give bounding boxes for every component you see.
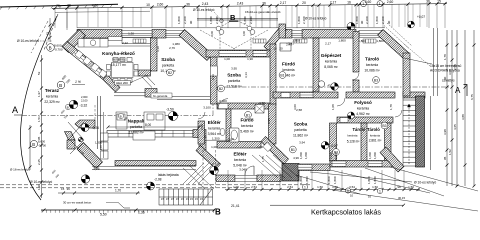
svg-text:kerámia: kerámia [348,134,358,138]
svg-text:parketta: parketta [294,128,306,132]
interior small dims [122,32,384,172]
bottom-left dim rows [58,192,140,195]
svg-text:Ø 16-es lefolyó: Ø 16-es lefolyó [10,168,31,172]
svg-text:2,861 m²: 2,861 m² [369,139,382,143]
svg-text:2,54: 2,54 [287,185,293,189]
svg-text:3,94: 3,94 [299,141,305,145]
bottom facade right section [299,164,330,171]
circled B markers left [47,44,55,52]
svg-text:B: B [32,142,35,147]
svg-text:0,90: 0,90 [242,30,246,36]
svg-text:2,58: 2,58 [259,101,265,105]
svg-text:kerámia: kerámia [370,134,380,138]
svg-text:1,800: 1,800 [299,176,303,184]
svg-text:B: B [49,45,52,50]
stairs bottom-left [159,189,213,205]
svg-text:3,13: 3,13 [211,74,215,80]
svg-text:1,800: 1,800 [299,152,303,159]
staircase right [403,98,416,166]
svg-text:B1: B1 [280,74,284,78]
svg-text:1,70: 1,70 [115,189,121,193]
top facade wall segments [77,30,122,39]
svg-text:kerámia: kerámia [46,94,58,98]
svg-text:Tároló: Tároló [367,127,380,132]
level quadrant markers [69,100,78,109]
cross braces [68,122,84,154]
svg-text:-0,07: -0,07 [331,144,338,148]
svg-text:10: 10 [350,194,354,198]
svg-text:B: B [215,208,221,217]
ACO drain channel right [431,28,438,170]
svg-text:1,50: 1,50 [317,185,323,189]
svg-text:-2,08: -2,08 [154,178,162,182]
bottom-left chamfer wall [77,143,103,169]
svg-text:2,17: 2,17 [330,1,337,5]
interior wall v3 szoba2/furdo1 [270,44,276,105]
rotated pairs above bottom windows [299,152,377,159]
svg-text:+0,07: +0,07 [417,15,425,19]
svg-text:ACO DRAIN folyóka: ACO DRAIN folyóka [430,69,460,73]
svg-text:12,518 m²: 12,518 m² [226,84,242,88]
top-left corner chamfer wall [62,30,86,53]
dining table + chairs [107,58,139,83]
door arcs [198,73,402,175]
svg-text:3,88: 3,88 [461,114,465,120]
svg-text:1,08: 1,08 [331,104,335,110]
svg-text:15: 15 [437,0,441,3]
svg-text:HEA 200: HEA 200 [116,81,128,85]
svg-text:2,60: 2,60 [387,0,394,4]
svg-text:1,00: 1,00 [233,185,239,189]
svg-text:fm-gerenda: fm-gerenda [153,94,168,98]
svg-text:1,800: 1,800 [358,39,366,43]
atrium rosette markers [216,26,255,34]
svg-text:Ø 10-es lefolyó: Ø 10-es lefolyó [305,17,327,21]
svg-text:Konyha-étkező: Konyha-étkező [102,51,135,56]
svg-text:10,086 m²: 10,086 m² [364,69,380,73]
svg-text:1,50: 1,50 [372,185,378,189]
svg-text:1,75: 1,75 [261,156,265,162]
svg-text:1,800: 1,800 [177,16,181,24]
svg-text:16: 16 [347,0,351,4]
furdo2 bathtub [230,128,240,142]
kitchen counter [78,39,108,48]
svg-text:75: 75 [56,4,60,8]
nappali west glazing [97,96,99,149]
svg-text:2,100: 2,100 [381,16,385,24]
svg-text:1,97: 1,97 [99,144,103,150]
svg-text:1,800: 1,800 [375,16,379,24]
HEA 200 box [115,81,131,86]
svg-text:-0,700: -0,700 [38,144,46,148]
svg-text:1,90: 1,90 [247,57,253,61]
terrace retaining structure [75,120,95,128]
bottom label line [270,204,404,206]
drain circle atrium [220,19,224,23]
svg-text:3,54: 3,54 [349,185,355,189]
svg-text:0,900: 0,900 [219,99,227,103]
svg-text:36: 36 [262,1,266,5]
svg-text:1: 1 [362,2,364,6]
svg-text:-0,700: -0,700 [54,48,63,52]
furdo2 shower [255,105,264,114]
svg-text:2,22: 2,22 [122,41,128,45]
svg-text:36: 36 [67,187,71,191]
bay windows (white gaps on diagonal) [72,50,104,77]
eloter1 west wall [198,121,205,144]
svg-text:Ø 10-es lefolyó: Ø 10-es lefolyó [30,180,52,184]
svg-text:2,76: 2,76 [169,46,175,50]
svg-text:1,800: 1,800 [304,152,308,159]
svg-text:90: 90 [360,20,364,24]
svg-text:1: 1 [379,190,381,194]
svg-text:2,58: 2,58 [296,108,302,112]
right facade wall upper [403,53,410,96]
svg-text:B: B [59,83,62,88]
eloter1/furdo2 wall [226,109,231,143]
svg-text:2,60: 2,60 [157,3,164,7]
svg-text:36: 36 [67,4,71,8]
szoba1/nappali beam lines [157,96,210,98]
svg-text:6,75: 6,75 [470,94,474,100]
svg-text:1,300: 1,300 [212,136,220,140]
svg-text:2,54: 2,54 [251,185,257,189]
svg-text:B3: B3 [374,79,378,83]
interior wall konyha/szoba v1 [151,38,158,71]
svg-text:1: 1 [379,2,381,6]
svg-text:Tároló: Tároló [365,57,379,62]
svg-text:B: B [120,114,122,118]
wall h3 top of furdo2 [217,103,270,109]
svg-text:kerámia: kerámia [112,58,124,62]
svg-text:Gépészet: Gépészet [321,53,342,58]
nappali sofa group [116,112,165,140]
insulation line above facade [77,27,385,29]
terrace arc boundary [20,16,57,200]
svg-text:2,17: 2,17 [325,42,331,46]
svg-text:1,78: 1,78 [389,104,393,110]
svg-text:A: A [455,86,461,95]
nappali north wall lintel + pillar [114,92,145,94]
svg-text:1,00: 1,00 [224,57,230,61]
stair hall dark wall [416,96,425,167]
svg-text:1,800: 1,800 [333,176,337,184]
svg-text:Ø 10-es lefolyó: Ø 10-es lefolyó [414,181,436,185]
svg-text:1,800: 1,800 [355,16,359,24]
svg-text:95: 95 [443,156,447,160]
svg-text:4,65: 4,65 [453,124,457,130]
interior wall v2 [211,55,218,104]
svg-text:2,100: 2,100 [81,99,88,103]
small circled B terrace [65,104,70,109]
svg-text:21,41: 21,41 [231,204,240,208]
svg-text:1,800: 1,800 [376,39,384,43]
svg-text:1,800: 1,800 [297,16,301,24]
wall h2 top of szoba3/folyoso [273,92,338,98]
svg-text:kerámia: kerámia [208,126,220,130]
kitchen bay diagonal wall [62,42,108,80]
svg-text:1,800: 1,800 [367,176,371,184]
svg-text:3,13: 3,13 [244,72,248,78]
svg-text:2,43: 2,43 [286,42,292,46]
svg-text:1,800: 1,800 [373,152,377,159]
circled 1 markers bottom [345,188,350,193]
svg-text:1,800: 1,800 [329,152,333,159]
svg-text:0,90: 0,90 [210,30,214,36]
svg-text:1,800: 1,800 [368,152,372,159]
svg-text:1,78: 1,78 [443,54,447,60]
szoba1 interior chamfer [179,30,213,61]
svg-text:90: 90 [189,20,193,24]
right rotated dim numbers [443,54,474,160]
atrium terrace edge [197,17,278,19]
svg-text:Előtér: Előtér [233,151,246,156]
right dim lines [446,30,476,188]
svg-text:3,100: 3,100 [203,106,211,110]
svg-text:2,000: 2,000 [81,95,88,99]
furdo2 east wall v3b [269,104,277,144]
svg-text:10: 10 [146,3,150,7]
svg-text:Ø 10-es lefolyó: Ø 10-es lefolyó [17,39,39,43]
gepeszet boiler [318,81,324,87]
svg-text:Fürdő: Fürdő [282,62,295,67]
svg-text:1,00: 1,00 [211,145,217,149]
svg-text:B: B [230,13,236,22]
svg-text:B2: B2 [219,87,223,91]
dashed verticals entrance [202,150,204,188]
rotated window dim labels top [177,16,391,24]
svg-text:8,065 m²: 8,065 m² [324,65,338,69]
svg-text:B1: B1 [291,148,295,152]
svg-text:szivattyú: szivattyú [442,79,455,83]
nappali south glazed wall [107,131,193,138]
svg-text:3,95: 3,95 [231,66,237,70]
facade windows [122,30,383,37]
chamfer wall szoba3/vestibule [261,137,289,165]
svg-text:15: 15 [61,187,65,191]
bottom right dim line [225,188,420,191]
walkway diagonals right of entrance [252,155,299,178]
svg-text:-3,26: -3,26 [92,126,100,130]
svg-text:Tároló: Tároló [353,127,366,132]
svg-text:-3,26: -3,26 [92,167,100,171]
svg-text:15,177 m²: 15,177 m² [111,63,127,67]
konyha window sill step [108,37,122,41]
svg-text:2,43: 2,43 [202,2,209,6]
bottom-right chamfer [380,147,404,172]
svg-text:2,43: 2,43 [237,2,244,6]
left dim lines [29,55,44,198]
svg-text:2,100: 2,100 [365,16,369,24]
svg-text:8,00: 8,00 [145,123,151,127]
svg-text:5,128 m²: 5,128 m² [347,140,360,144]
site boundary line top-left [0,4,118,10]
atrium dashed diagonals [200,30,268,50]
entrance walkway diagonals [183,163,219,190]
svg-text:1,800: 1,800 [327,176,331,184]
svg-text:2,17: 2,17 [280,1,287,5]
svg-text:36: 36 [186,2,190,6]
svg-text:Folyosó: Folyosó [354,100,372,105]
svg-text:14: 14 [273,47,277,51]
svg-text:1,300: 1,300 [95,141,102,145]
svg-text:20: 20 [279,47,283,51]
svg-text:B3: B3 [382,124,386,128]
svg-text:3,964 m²: 3,964 m² [208,132,222,136]
terrace south wall [115,161,196,166]
svg-text:parketta: parketta [162,63,174,67]
svg-text:1: 1 [304,186,306,190]
8,00 dim nappali [108,126,199,128]
svg-text:parketta: parketta [228,79,240,83]
svg-text:1,800: 1,800 [292,39,300,43]
furdo1 tub [280,43,291,51]
circled B1/B2 refs [167,69,174,76]
svg-text:B2: B2 [168,71,172,75]
svg-text:Nappali: Nappali [128,119,145,124]
radiators [133,39,376,43]
top dimension line [52,2,447,30]
svg-text:1,30: 1,30 [128,32,134,36]
wall h4 folyoso bottom [337,117,393,123]
top dimension numbers [56,0,441,8]
svg-text:30 cm-es vasalt beton: 30 cm-es vasalt beton [63,201,92,205]
svg-text:15x15 cm beémelésű: 15x15 cm beémelésű [430,64,462,68]
svg-text:B1: B1 [246,113,250,117]
svg-text:kerámia: kerámia [325,60,337,64]
corner pier crosshatch [282,164,299,182]
svg-text:kerámia: kerámia [366,63,378,67]
svg-text:2,60: 2,60 [365,0,372,4]
svg-text:1,52: 1,52 [448,149,452,155]
rotated dims below bottom windows [299,176,377,184]
svg-text:4,962 m²: 4,962 m² [356,112,370,116]
drain dash lines bottom [0,184,312,186]
szoba3 south wall [217,142,261,149]
svg-text:1,97: 1,97 [37,91,41,97]
svg-text:Ø 10-es lefolyó: Ø 10-es lefolyó [193,8,215,12]
drain strip along chamfer [387,23,412,46]
furdo2 wc [220,129,225,136]
svg-text:5,50: 5,50 [100,213,107,217]
svg-text:kerámia: kerámia [234,158,246,162]
svg-text:36: 36 [426,0,430,3]
svg-text:Kertkapcsolatos lakás: Kertkapcsolatos lakás [311,208,381,217]
svg-text:kerámia: kerámia [282,68,294,72]
svg-text:2,25: 2,25 [37,159,41,165]
svg-text:11,862 m²: 11,862 m² [293,134,309,138]
svg-text:22,329 m²: 22,329 m² [44,100,60,104]
svg-text:15x10-es gerendás élvédő: 15x10-es gerendás élvédő [245,10,281,14]
tarolo walls v4b v5 v6 [330,123,337,161]
kitchen cabinets along bay [75,50,107,78]
level markers (quadrant circles) top [347,23,355,31]
svg-text:Szoba: Szoba [294,122,308,127]
svg-text:2,08: 2,08 [200,124,204,130]
svg-text:2,100: 2,100 [183,16,187,24]
left rotated numbers [37,71,41,190]
svg-text:Előtér: Előtér [208,120,221,125]
svg-text:Terasz: Terasz [45,88,60,93]
svg-text:1 %: 1 % [75,80,81,84]
svg-text:4,80: 4,80 [92,3,99,7]
retaining wall line with ticks [41,209,216,213]
svg-text:3,00: 3,00 [293,104,297,110]
svg-text:1,00: 1,00 [332,185,338,189]
svg-text:1,50: 1,50 [408,185,414,189]
leader diagonals bottom right [296,58,478,211]
svg-text:2,25: 2,25 [267,118,271,124]
svg-text:-3,32: -3,32 [80,104,88,108]
svg-text:30,15: 30,15 [398,196,405,200]
svg-text:1,51: 1,51 [37,116,41,122]
top-right chamfer wall [378,30,410,60]
svg-text:Szoba: Szoba [161,57,175,62]
svg-text:3,98: 3,98 [443,129,447,135]
svg-text:27,682 m²: 27,682 m² [128,131,144,135]
svg-text:3,10: 3,10 [156,46,160,52]
svg-text:1,800: 1,800 [338,39,346,43]
svg-text:5,469 m²: 5,469 m² [240,130,254,134]
svg-text:1,36: 1,36 [138,211,145,215]
svg-text:B: B [67,105,69,109]
svg-text:Szoba: Szoba [227,72,241,77]
section line A-A [22,87,450,116]
svg-text:53: 53 [37,71,41,75]
atrium right chamfer wall [264,25,287,51]
svg-text:1,800: 1,800 [305,176,309,184]
svg-text:1,800: 1,800 [334,152,338,159]
svg-text:kerámia: kerámia [241,124,253,128]
wall furdo1/gepeszet [313,38,319,92]
szoba2 north wall [206,50,275,57]
svg-text:-3,50: -3,50 [166,108,174,112]
svg-text:kerámia: kerámia [357,106,369,110]
svg-text:1,00: 1,00 [257,145,263,149]
svg-text:lakás bejárata: lakás bejárata [158,173,179,177]
svg-text:20: 20 [302,1,306,5]
eloter2 vestibule walls [196,146,221,170]
wall gepeszet/tarolo1 [353,32,359,73]
svg-text:A: A [12,105,18,115]
grid markers circled 1 top [361,1,384,7]
